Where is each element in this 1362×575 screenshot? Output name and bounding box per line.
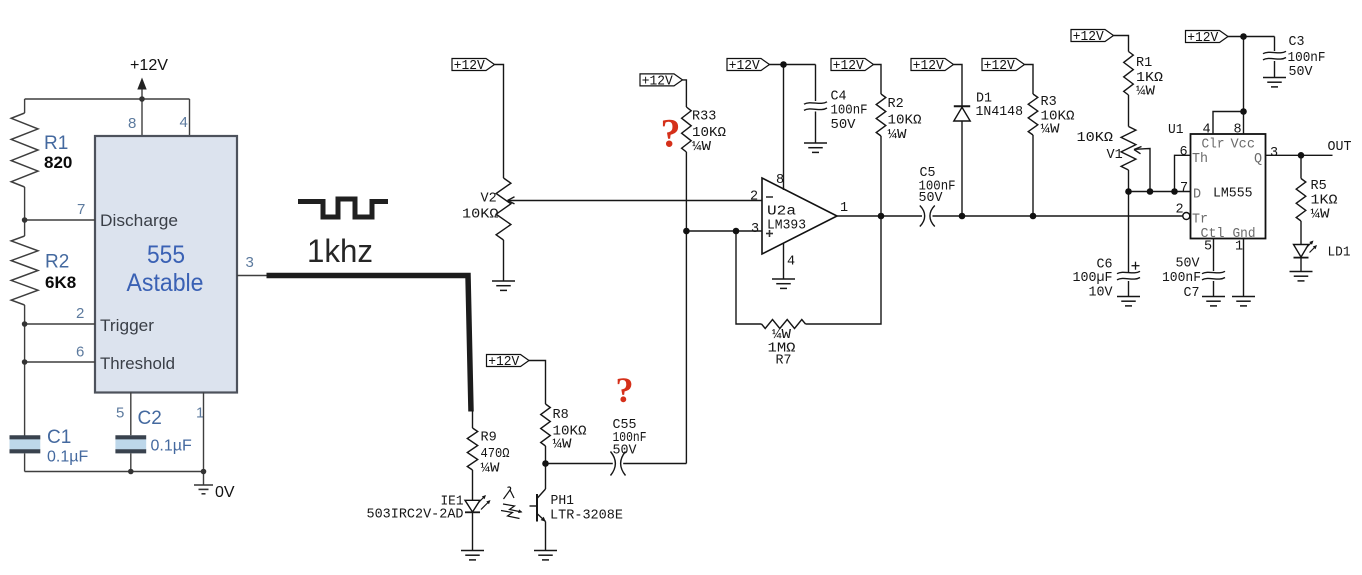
svg-text:8: 8 [128,115,136,132]
svg-text:4: 4 [180,114,188,131]
svg-text:+12V: +12V [130,57,168,74]
svg-text:?: ? [616,370,634,410]
svg-text:2: 2 [750,190,758,205]
svg-text:Discharge: Discharge [100,211,178,230]
svg-text:8: 8 [1234,123,1242,138]
svg-text:U2a: U2a [767,205,796,220]
svg-text:¼W: ¼W [481,462,501,477]
svg-text:1: 1 [840,201,848,216]
svg-text:3: 3 [246,254,254,271]
svg-text:¼W: ¼W [1136,85,1156,100]
svg-text:1N4148: 1N4148 [976,105,1024,120]
svg-text:100nF: 100nF [1162,271,1201,286]
svg-text:C4: C4 [831,90,847,105]
svg-text:R9: R9 [481,431,497,446]
svg-text:0.1µF: 0.1µF [47,449,88,466]
svg-text:6: 6 [76,344,84,361]
svg-text:LM555: LM555 [1213,187,1253,202]
svg-text:R1: R1 [1136,56,1152,71]
svg-text:100µF: 100µF [1073,271,1113,286]
svg-text:¼W: ¼W [888,128,908,143]
svg-text:+12V: +12V [454,59,486,74]
svg-text:U1: U1 [1168,123,1184,138]
svg-text:7: 7 [1180,181,1188,196]
svg-text:¼W: ¼W [553,438,573,453]
svg-text:C3: C3 [1289,35,1305,50]
svg-text:D: D [1193,188,1201,203]
svg-text:R8: R8 [553,408,569,423]
svg-text:LD1: LD1 [1328,246,1351,261]
svg-text:LM393: LM393 [767,219,806,234]
svg-text:Tr: Tr [1192,213,1208,228]
svg-text:Vcc: Vcc [1231,138,1256,153]
svg-text:+12V: +12V [729,59,761,74]
svg-text:¼W: ¼W [692,140,712,155]
svg-text:?: ? [661,111,681,156]
svg-text:50V: 50V [1289,65,1314,80]
svg-text:50V: 50V [831,118,857,133]
svg-text:820: 820 [44,153,72,172]
svg-text:0V: 0V [215,484,235,501]
svg-text:3: 3 [1270,146,1278,161]
svg-text:5: 5 [116,405,124,422]
svg-text:+12V: +12V [984,59,1016,74]
svg-text:503IRC2V-2AD: 503IRC2V-2AD [367,508,464,523]
svg-text:555: 555 [147,241,185,269]
svg-text:Trigger: Trigger [100,316,154,335]
svg-text:R7: R7 [776,354,792,369]
svg-text:6K8: 6K8 [45,273,76,292]
svg-text:R5: R5 [1311,179,1327,194]
svg-text:C2: C2 [138,408,162,429]
svg-text:50V: 50V [919,191,944,206]
svg-text:10V: 10V [1089,286,1114,301]
svg-text:5: 5 [1204,240,1212,255]
svg-text:3: 3 [751,222,759,237]
svg-text:C7: C7 [1184,286,1200,301]
svg-text:10KΩ: 10KΩ [462,208,499,223]
svg-text:+12V: +12V [488,355,520,370]
svg-text:1khz: 1khz [307,233,373,269]
svg-text:7: 7 [77,201,85,218]
svg-text:Clr: Clr [1202,138,1225,153]
svg-text:V1: V1 [1107,148,1123,163]
svg-text:100nF: 100nF [1288,51,1326,66]
svg-text:10KΩ: 10KΩ [1077,131,1114,146]
svg-text:¼W: ¼W [1041,123,1061,138]
svg-text:1: 1 [1235,240,1243,255]
svg-text:LTR-3208E: LTR-3208E [550,509,623,524]
svg-text:+12V: +12V [1187,31,1219,46]
svg-text:50V: 50V [613,444,638,459]
svg-text:OUT: OUT [1328,140,1352,155]
svg-text:C1: C1 [47,427,71,448]
svg-text:4: 4 [1203,123,1211,138]
svg-text:+12V: +12V [913,59,945,74]
svg-text:R1: R1 [44,133,68,154]
svg-text:6: 6 [1180,145,1188,160]
svg-text:Th: Th [1192,152,1208,167]
svg-text:+12V: +12V [1073,30,1105,45]
svg-text:100nF: 100nF [831,104,868,119]
svg-text:R2: R2 [45,252,69,273]
svg-text:R33: R33 [692,110,716,125]
svg-text:PH1: PH1 [551,494,575,509]
svg-text:R2: R2 [888,97,904,112]
svg-text:¼W: ¼W [1311,208,1331,223]
svg-text:Astable: Astable [127,269,204,297]
svg-text:0.1µF: 0.1µF [151,438,192,455]
svg-text:2: 2 [76,305,84,322]
svg-text:R3: R3 [1041,95,1057,110]
svg-text:10KΩ: 10KΩ [692,126,726,141]
svg-text:470Ω: 470Ω [481,447,510,462]
svg-text:+12V: +12V [833,59,865,74]
svg-text:Threshold: Threshold [100,354,175,373]
svg-text:+12V: +12V [642,74,674,89]
svg-text:4: 4 [787,255,795,270]
svg-text:10KΩ: 10KΩ [888,114,922,129]
svg-text:V2: V2 [481,192,497,207]
svg-text:Q: Q [1254,152,1262,167]
svg-text:50V: 50V [1176,257,1201,272]
svg-text:1KΩ: 1KΩ [1311,194,1338,209]
